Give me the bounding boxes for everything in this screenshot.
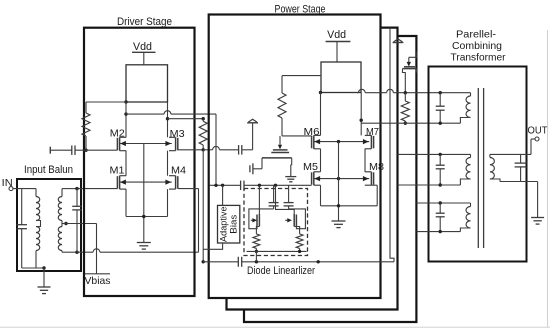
- resistor lin left: [253, 234, 260, 249]
- wire bottom rail: [242, 261, 394, 263]
- node input gate mid: [337, 177, 340, 180]
- wire lin left gate loop: [249, 209, 274, 229]
- node R2 bottom: [202, 148, 205, 151]
- transistor bias follower 2: [409, 52, 417, 58]
- transformer box: [429, 67, 527, 262]
- diode linearizer box: [244, 189, 308, 256]
- svg-text:Diode Linearlizer: Diode Linearlizer: [247, 265, 315, 277]
- svg-text:Power Stage: Power Stage: [275, 4, 326, 16]
- wire lin right feed: [276, 185, 295, 214]
- wire M7 drain to primary1 bottom: [361, 122, 460, 124]
- node follower2 out: [404, 91, 407, 94]
- wire load mid left: [282, 75, 321, 77]
- inductor primary 1: [470, 93, 472, 96]
- node primary2 top tap: [439, 153, 442, 156]
- wire M6 drain: [320, 93, 322, 136]
- wire M2 source to M1 drain: [125, 151, 127, 176]
- capacitor lin left: [273, 185, 275, 202]
- svg-text:Driver Stage: Driver Stage: [117, 16, 172, 28]
- node rail right: [317, 260, 320, 263]
- wire primary2 top: [398, 153, 471, 155]
- wire power tail: [321, 205, 378, 207]
- capacitor driver cascode bypass: [71, 145, 73, 155]
- wire primary2 bottom: [398, 184, 461, 186]
- wire interstage riser: [215, 114, 217, 185]
- capacitor bottom rail: [237, 257, 239, 267]
- transistor M2: [116, 138, 118, 150]
- power stage box: [209, 15, 381, 299]
- inductor secondary: [489, 154, 491, 157]
- resistor R2: [202, 119, 204, 122]
- wire Vbias line: [66, 223, 97, 225]
- wire OUT: [530, 139, 532, 154]
- svg-text:Vdd: Vdd: [327, 29, 346, 41]
- node power tail: [337, 204, 340, 207]
- svg-text:Combining: Combining: [452, 40, 502, 52]
- wire secondary top: [490, 153, 531, 155]
- adaptive bias box: [218, 205, 240, 243]
- svg-text:Transformer: Transformer: [451, 52, 506, 64]
- node driver load left: [124, 100, 127, 103]
- transformer core: [477, 88, 479, 248]
- svg-text:Parellel-: Parellel-: [456, 29, 497, 41]
- wire IN to primary: [13, 188, 36, 190]
- wire balun out bottom: [77, 251, 93, 253]
- transformer power load: [321, 62, 361, 93]
- capacitor tank 2: [439, 154, 441, 165]
- capacitor balun input (shunt): [21, 189, 23, 225]
- svg-text:OUT: OUT: [528, 124, 549, 136]
- svg-text:Input Balun: Input Balun: [24, 164, 73, 176]
- node primary3 bottom tap: [439, 230, 442, 233]
- ground input balun: [38, 286, 51, 288]
- node lin left feed: [258, 184, 261, 187]
- wire stub to cap: [50, 149, 72, 151]
- transistor lin right diode: [295, 215, 297, 227]
- node OUT terminal: [535, 137, 539, 141]
- svg-text:M7: M7: [366, 126, 379, 138]
- node primary1 top tap: [439, 91, 442, 94]
- wire M6 M7 gate rail: [314, 141, 369, 143]
- node R1 bottom: [84, 149, 87, 152]
- wire R2 bias drop: [202, 150, 204, 262]
- wire M7 source to M8 drain: [364, 149, 366, 172]
- capacitor cascode bypass 2: [238, 145, 240, 155]
- pa slice box B: [227, 28, 398, 310]
- ground output: [531, 217, 544, 219]
- wire M3 drain to R2: [168, 118, 204, 120]
- wire primary3 top: [416, 202, 470, 204]
- wire cap to antenna stub: [242, 149, 253, 151]
- node lin rail left: [255, 250, 258, 253]
- inductor primary 2: [470, 154, 472, 157]
- pa slice box C: [244, 36, 416, 322]
- wire M2 drain: [125, 102, 127, 137]
- wire M3 source to M4 drain: [167, 151, 169, 176]
- wire M4 gate riser: [198, 189, 200, 253]
- wire cap to M2 gate: [75, 149, 117, 151]
- svg-text:M4: M4: [171, 164, 186, 176]
- ground power tail: [332, 220, 346, 222]
- driver stage box: [84, 28, 195, 296]
- wire adaptive bias top: [222, 185, 224, 205]
- wire balun bottom: [22, 267, 44, 269]
- svg-text:M8: M8: [369, 161, 384, 173]
- wire lin left source: [256, 227, 259, 234]
- wire M3 gate lead: [178, 149, 203, 151]
- wire M6 source to M5 drain: [320, 149, 322, 172]
- wire M8 source: [371, 184, 377, 186]
- inductor balun secondary upper: [58, 197, 62, 221]
- node adaptive bias tap: [221, 184, 224, 187]
- svg-text:M5: M5: [303, 161, 318, 173]
- transformer driver load: [126, 65, 168, 102]
- wire M4 gate lead: [178, 188, 199, 190]
- transistor M7: [373, 136, 375, 148]
- wire M7 drain: [360, 93, 362, 136]
- wire lin right source: [294, 227, 299, 234]
- wire to balun ground: [43, 268, 45, 287]
- node R4 bottom: [404, 122, 407, 125]
- node primary3 top tap: [439, 201, 442, 204]
- wire center tap: [62, 223, 66, 225]
- svg-text:Vdd: Vdd: [133, 41, 152, 53]
- wire lin rail link: [255, 251, 257, 261]
- node center tap: [64, 222, 67, 225]
- antenna bias stub: [247, 122, 258, 124]
- wire follower cap: [253, 168, 262, 170]
- wire M2 M3 gate bias rail: [120, 143, 172, 145]
- wire M5 M8 gate rail: [314, 178, 369, 180]
- transistor M1: [116, 176, 118, 188]
- node secondary bottom junction: [75, 251, 78, 254]
- resistor R3: [281, 76, 283, 93]
- capacitor tank 3: [439, 203, 441, 213]
- ground driver tail: [137, 242, 151, 244]
- node lin rail right: [298, 250, 301, 253]
- node bias rail left: [202, 260, 205, 263]
- wire secondary bottom out: [61, 251, 63, 253]
- capacitor lin right: [288, 185, 290, 202]
- wire M1 M4 gate rail: [120, 181, 172, 183]
- inductor balun primary lower: [36, 227, 40, 251]
- wire R3 to M6 gate: [282, 135, 312, 137]
- wire driver center rail: [143, 144, 145, 243]
- figure border right (faint): [547, 30, 549, 327]
- wire lin inner rail: [247, 250, 307, 252]
- wire M1 source: [125, 189, 127, 216]
- node rail mid: [255, 260, 258, 263]
- wire secondary tap link: [61, 221, 63, 227]
- transistor M4: [177, 176, 179, 188]
- transistor M6: [311, 136, 313, 148]
- transistor M8: [373, 172, 375, 184]
- figure border bottom (faint): [0, 326, 550, 328]
- transistor bias follower: [279, 136, 281, 145]
- capacitor balun output (shunt): [76, 189, 78, 207]
- resistor R1: [85, 102, 87, 113]
- capacitor output: [520, 154, 522, 163]
- node M2 drain tap: [124, 112, 127, 115]
- svg-text:M3: M3: [170, 128, 185, 140]
- node M3 drain tap: [166, 117, 169, 120]
- node driver tail: [142, 215, 145, 218]
- transistor lin left diode: [256, 215, 258, 227]
- svg-text:Vbias: Vbias: [85, 275, 111, 287]
- wire slice B feed: [390, 28, 394, 262]
- resistor lin right: [296, 234, 303, 249]
- node power load left: [319, 91, 322, 94]
- node cascode gate mid: [337, 140, 340, 143]
- wire secondary bottom: [500, 181, 538, 183]
- svg-text:IN: IN: [2, 177, 13, 189]
- svg-text:Bias: Bias: [229, 214, 240, 233]
- capacitor interstage coupling: [240, 181, 242, 191]
- svg-text:M2: M2: [110, 128, 125, 140]
- resistor R4: [404, 93, 406, 101]
- node M7 drain tap: [360, 119, 363, 122]
- transistor M3: [177, 138, 179, 150]
- node lin right feed: [274, 184, 277, 187]
- capacitor follower bypass: [249, 165, 251, 172]
- antenna stub slice B: [393, 42, 404, 44]
- wire driver tail: [126, 216, 168, 218]
- node primary2 bottom tap: [439, 183, 442, 186]
- capacitor tank 1: [439, 93, 441, 107]
- node riser join: [214, 184, 217, 187]
- wire primary jog: [36, 221, 41, 227]
- wire load to R1: [86, 101, 126, 103]
- wire bottom rail left: [203, 261, 238, 263]
- inductor balun secondary lower: [58, 227, 62, 251]
- wire power center rail: [338, 142, 340, 221]
- wire balun out top to M1 gate: [77, 188, 117, 190]
- node R2 top: [202, 117, 205, 120]
- wire secondary top out: [61, 189, 63, 197]
- ground follower: [285, 176, 296, 178]
- input balun box: [17, 179, 81, 271]
- terminal stub driver left: [49, 147, 51, 154]
- inductor primary 3: [470, 203, 472, 207]
- wire M3 drain: [167, 102, 169, 137]
- wire R2 gate line: [203, 149, 212, 151]
- node balun gnd junction: [42, 266, 45, 269]
- wire adaptive bias bottom: [203, 243, 222, 249]
- wire M5 gate line left: [210, 184, 241, 186]
- wire lin right gate loop: [289, 209, 306, 229]
- wire M4 source: [167, 189, 169, 216]
- wire power output: [357, 92, 358, 94]
- wire primary3 bottom: [416, 231, 460, 233]
- inductor balun primary upper: [36, 197, 40, 221]
- wire M5 gate line: [244, 184, 312, 186]
- svg-text:M6: M6: [304, 126, 320, 138]
- node primary1 bottom tap: [439, 122, 442, 125]
- svg-text:M1: M1: [110, 164, 125, 176]
- wire lin left feed: [258, 185, 260, 214]
- wire driver output: [126, 113, 164, 115]
- wire primary bottom: [35, 251, 37, 269]
- wire M5 source: [320, 185, 322, 206]
- transistor M5: [311, 172, 313, 184]
- node secondary top junction: [75, 187, 78, 190]
